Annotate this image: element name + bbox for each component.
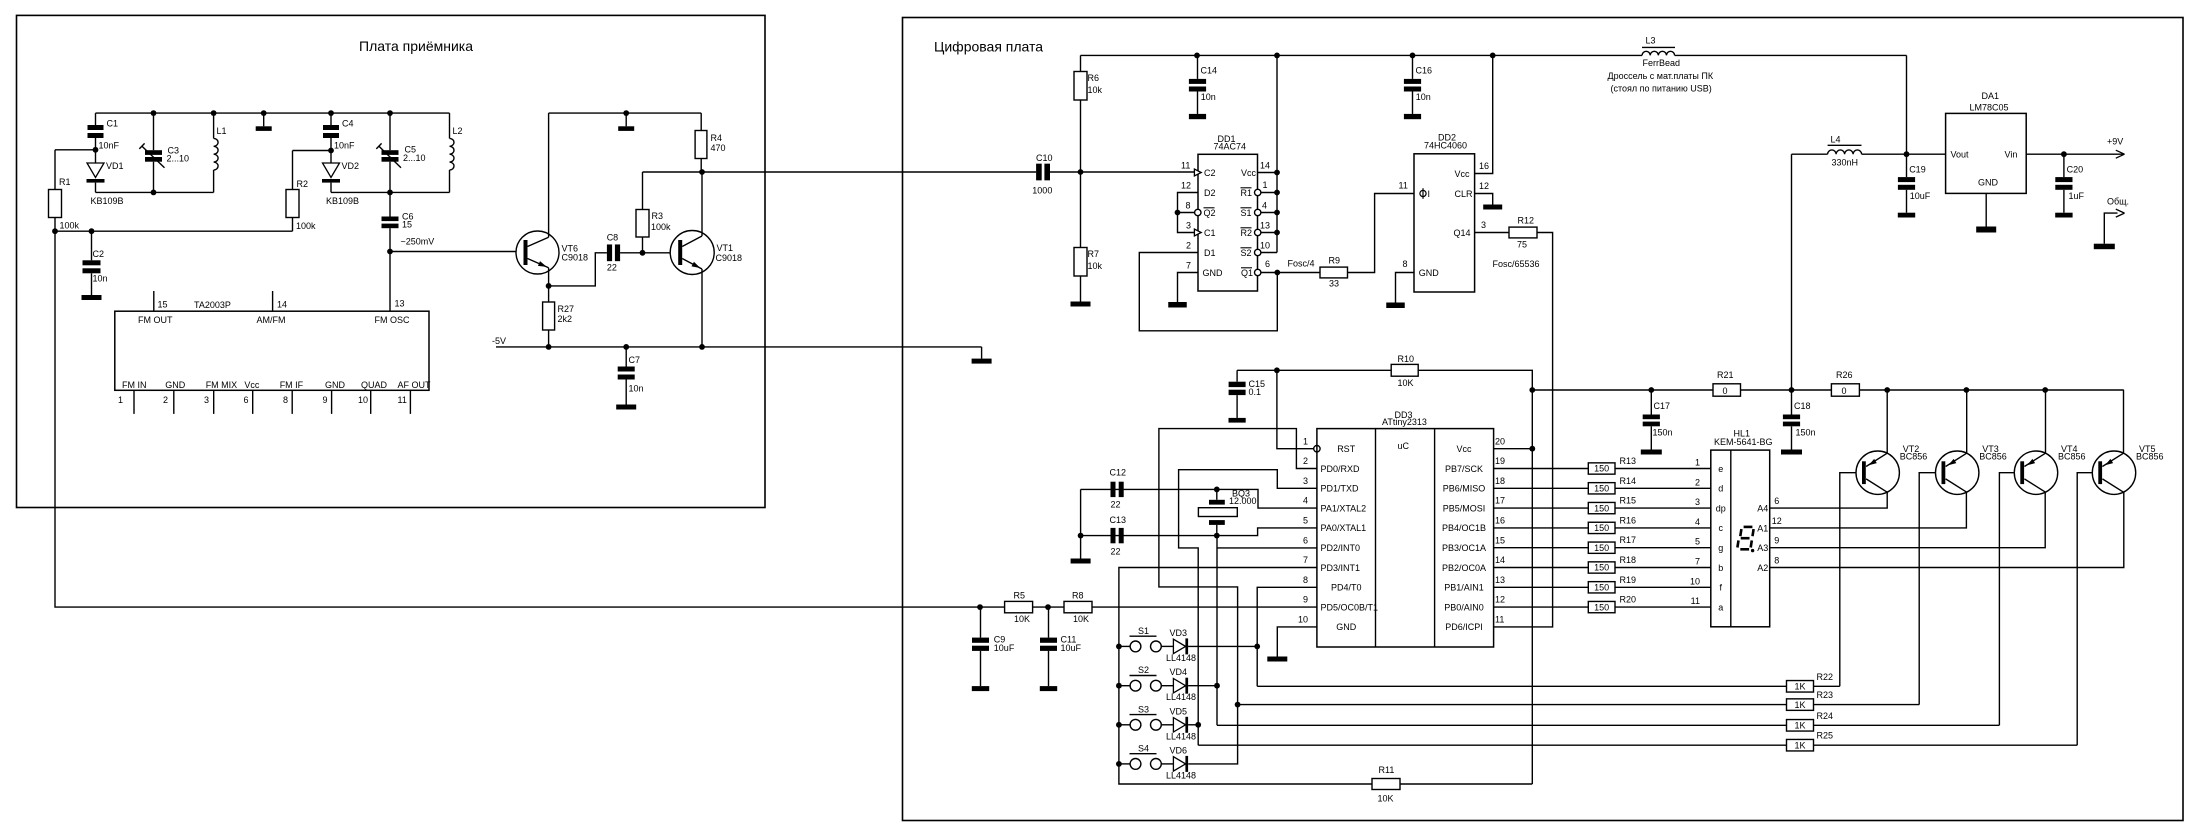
svg-text:150: 150 bbox=[1594, 484, 1609, 494]
svg-text:150: 150 bbox=[1594, 602, 1609, 612]
svg-text:2...10: 2...10 bbox=[167, 154, 190, 164]
ground DD2 bbox=[1386, 303, 1405, 309]
svg-text:C4: C4 bbox=[342, 119, 354, 129]
svg-text:S1: S1 bbox=[1241, 208, 1252, 218]
svg-text:TA2003P: TA2003P bbox=[194, 300, 231, 310]
svg-text:0: 0 bbox=[1723, 386, 1728, 396]
resistor R23 bbox=[1787, 699, 1814, 711]
transistor VT6 bbox=[516, 231, 559, 274]
resistor R25 bbox=[1787, 739, 1814, 751]
capacitor C18 bbox=[1791, 390, 1793, 415]
wire DD3 gnd bbox=[1277, 627, 1317, 657]
svg-text:74AC74: 74AC74 bbox=[1214, 141, 1247, 151]
svg-text:470: 470 bbox=[711, 143, 726, 153]
wire C1/VD1 to R1 bbox=[55, 149, 96, 151]
svg-text:Vcc: Vcc bbox=[1456, 444, 1472, 454]
svg-text:5: 5 bbox=[1695, 537, 1700, 547]
svg-text:100k: 100k bbox=[296, 221, 316, 231]
transistor VT4 bbox=[2014, 451, 2057, 494]
svg-text:FM IF: FM IF bbox=[280, 380, 304, 390]
svg-text:16: 16 bbox=[1495, 516, 1505, 526]
node rail gnd tap bbox=[261, 110, 267, 116]
svg-text:A4: A4 bbox=[1757, 504, 1768, 514]
node C14 top bbox=[1194, 53, 1200, 59]
svg-text:PD4/T0: PD4/T0 bbox=[1331, 583, 1362, 593]
svg-text:10: 10 bbox=[1260, 241, 1270, 251]
svg-text:13: 13 bbox=[1495, 575, 1505, 585]
svg-text:11: 11 bbox=[1691, 596, 1700, 606]
resistor R16 bbox=[1588, 522, 1615, 533]
node VT3 emitter riser bbox=[1964, 387, 1970, 393]
svg-text:Дроссель с мат.платы ПК: Дроссель с мат.платы ПК bbox=[1608, 71, 1714, 81]
svg-text:Q1: Q1 bbox=[1241, 268, 1253, 278]
wire VT2 emitter bbox=[1886, 390, 1888, 453]
node commons S2 bbox=[1116, 683, 1122, 689]
svg-text:R23: R23 bbox=[1817, 690, 1834, 700]
wire RST riser bbox=[1277, 370, 1314, 448]
svg-text:S3: S3 bbox=[1138, 704, 1149, 714]
svg-text:R20: R20 bbox=[1620, 595, 1637, 605]
svg-text:PD1/TXD: PD1/TXD bbox=[1321, 484, 1360, 494]
wire PB row 13 bbox=[1494, 468, 1589, 470]
node DD1 S1 bbox=[1274, 210, 1280, 216]
pin 6 stub bbox=[252, 390, 254, 414]
node RST riser top bbox=[1274, 367, 1280, 373]
node tank2 C5 top bbox=[387, 110, 393, 116]
svg-text:R9: R9 bbox=[1329, 256, 1341, 266]
ground C16 bbox=[1404, 114, 1421, 119]
digital board frame bbox=[903, 18, 2184, 821]
wire DD2 gnd bbox=[1396, 273, 1415, 303]
DD3 RST bubble bbox=[1314, 446, 1320, 452]
wire PB row 17 bbox=[1494, 547, 1589, 549]
svg-text:10n: 10n bbox=[1201, 92, 1216, 102]
wire A4 to VT2 bbox=[1770, 492, 1888, 508]
IC DD2 box bbox=[1414, 154, 1475, 292]
node C20 top bbox=[2061, 151, 2067, 157]
svg-text:dp: dp bbox=[1716, 503, 1726, 513]
svg-text:+9V: +9V bbox=[2107, 137, 2123, 147]
ground C9 bbox=[972, 686, 989, 691]
svg-text:Vcc: Vcc bbox=[1455, 169, 1471, 179]
wire DD2 vcc bbox=[1475, 55, 1493, 173]
svg-text:4: 4 bbox=[1262, 201, 1267, 211]
node C7 top bbox=[623, 344, 629, 350]
svg-text:33: 33 bbox=[1329, 279, 1339, 289]
DD1 Q2 bubble bbox=[1195, 209, 1201, 215]
node R4-VT1 collector bbox=[699, 169, 705, 175]
svg-text:R14: R14 bbox=[1620, 476, 1637, 486]
wire VT6 collector bbox=[548, 113, 550, 237]
capacitor C15 bbox=[1236, 370, 1238, 381]
svg-text:PD5/OC0B/T1: PD5/OC0B/T1 bbox=[1321, 602, 1379, 612]
svg-text:C9018: C9018 bbox=[716, 253, 743, 263]
ground C17 bbox=[1641, 450, 1662, 455]
svg-text:RST: RST bbox=[1337, 444, 1356, 454]
svg-text:C18: C18 bbox=[1794, 401, 1811, 411]
wire -5V rail bbox=[496, 346, 982, 348]
svg-text:12: 12 bbox=[1495, 595, 1505, 605]
svg-text:8: 8 bbox=[1774, 556, 1779, 566]
diode VD3 bbox=[1161, 645, 1173, 647]
svg-text:R12: R12 bbox=[1518, 216, 1535, 226]
svg-text:14: 14 bbox=[1260, 161, 1270, 171]
wire R11 to vcc line bbox=[1400, 783, 1532, 785]
resistor R24 bbox=[1787, 720, 1814, 732]
svg-text:R18: R18 bbox=[1620, 555, 1637, 565]
pin 8 stub bbox=[291, 390, 293, 414]
svg-text:10n: 10n bbox=[93, 274, 108, 284]
inductor L3 bbox=[1642, 51, 1674, 55]
resistor R17 bbox=[1588, 542, 1615, 553]
pin 15 stub bbox=[153, 291, 155, 311]
svg-text:GND: GND bbox=[1203, 268, 1224, 278]
svg-text:R4: R4 bbox=[711, 133, 723, 143]
svg-text:11: 11 bbox=[1495, 615, 1504, 625]
wire receiver to R5 long bbox=[55, 231, 980, 607]
svg-text:LM78C05: LM78C05 bbox=[1970, 103, 2009, 113]
wire VT5 base riser bbox=[2077, 473, 2099, 746]
pin 11 stub bbox=[409, 390, 411, 414]
svg-text:10uF: 10uF bbox=[1061, 643, 1082, 653]
capacitor C19 bbox=[1906, 154, 1908, 177]
+9V arrow bbox=[2116, 150, 2125, 154]
svg-text:KB109B: KB109B bbox=[326, 196, 359, 206]
node R1 bottom bbox=[52, 228, 58, 234]
resistor R6 bbox=[1080, 55, 1082, 71]
svg-text:7: 7 bbox=[1303, 555, 1308, 565]
svg-text:GND: GND bbox=[1336, 622, 1357, 632]
pin 2 stub bbox=[173, 390, 175, 414]
svg-text:R5: R5 bbox=[1014, 591, 1026, 601]
wire R5-R8 bbox=[1033, 606, 1064, 608]
svg-text:R25: R25 bbox=[1817, 731, 1834, 741]
svg-text:~250mV: ~250mV bbox=[401, 237, 435, 247]
svg-text:VD4: VD4 bbox=[1170, 667, 1188, 677]
pin 1 stub bbox=[133, 390, 135, 414]
node PD4 net S1 bbox=[1254, 644, 1260, 650]
wire R10 right to rail bbox=[1418, 370, 1532, 784]
svg-text:6: 6 bbox=[1303, 535, 1308, 545]
svg-text:L2: L2 bbox=[453, 126, 463, 136]
svg-text:R8: R8 bbox=[1072, 591, 1084, 601]
svg-text:9: 9 bbox=[1774, 536, 1779, 546]
svg-text:8: 8 bbox=[1303, 575, 1308, 585]
svg-text:Q14: Q14 bbox=[1454, 228, 1471, 238]
wire Fosc line bbox=[643, 171, 1037, 173]
svg-text:10n: 10n bbox=[629, 384, 644, 394]
svg-text:10K: 10K bbox=[1378, 794, 1394, 804]
svg-text:150: 150 bbox=[1594, 523, 1609, 533]
svg-text:C7: C7 bbox=[629, 355, 641, 365]
svg-text:2: 2 bbox=[1186, 241, 1191, 251]
svg-text:C16: C16 bbox=[1416, 65, 1433, 75]
svg-text:2: 2 bbox=[163, 395, 168, 405]
svg-text:I: I bbox=[1428, 189, 1431, 199]
svg-text:8: 8 bbox=[1403, 259, 1408, 269]
svg-text:BC856: BC856 bbox=[1979, 452, 2007, 462]
resistor R20 bbox=[1588, 601, 1615, 612]
svg-text:Fosc/4: Fosc/4 bbox=[1288, 259, 1315, 269]
resistor R10 bbox=[1391, 364, 1418, 376]
svg-text:R3: R3 bbox=[652, 211, 664, 221]
pin 9 stub bbox=[331, 390, 333, 414]
wire PB row 16 bbox=[1494, 527, 1589, 529]
node crystal top bbox=[1214, 487, 1220, 493]
resistor R7 bbox=[1080, 172, 1082, 248]
svg-text:9: 9 bbox=[1303, 595, 1308, 605]
svg-text:150: 150 bbox=[1594, 563, 1609, 573]
svg-text:Vcc: Vcc bbox=[1241, 168, 1257, 178]
svg-text:AF OUT: AF OUT bbox=[398, 380, 432, 390]
resistor R11 bbox=[1372, 779, 1400, 790]
wire DD1 vcc riser bbox=[1276, 55, 1278, 252]
switch S3 bbox=[1119, 724, 1130, 726]
ground C18 bbox=[1781, 450, 1802, 455]
svg-text:15: 15 bbox=[158, 300, 168, 310]
svg-text:14: 14 bbox=[277, 300, 287, 310]
svg-text:R26: R26 bbox=[1836, 370, 1853, 380]
node DD1 vcc pin14 bbox=[1274, 170, 1280, 176]
wire PB row 18 bbox=[1494, 567, 1589, 569]
svg-text:10uF: 10uF bbox=[1910, 191, 1931, 201]
switch S4 bbox=[1119, 763, 1130, 765]
wire DA1 gnd bbox=[1985, 193, 1987, 226]
ground amp top bbox=[625, 113, 627, 126]
wire R10 left bbox=[1237, 369, 1391, 371]
svg-text:1K: 1K bbox=[1794, 682, 1805, 692]
svg-text:100k: 100k bbox=[60, 221, 80, 231]
svg-text:22: 22 bbox=[1111, 500, 1121, 510]
wire A1 to VT3 bbox=[1770, 492, 1967, 528]
svg-text:FerrBead: FerrBead bbox=[1643, 58, 1681, 68]
wire emitter to C8 bbox=[549, 253, 607, 286]
svg-text:C12: C12 bbox=[1110, 468, 1127, 478]
node VT2 emitter riser bbox=[1884, 387, 1890, 393]
capacitor C4 bbox=[330, 113, 332, 125]
svg-text:Плата приёмника: Плата приёмника bbox=[359, 38, 473, 54]
svg-text:5: 5 bbox=[1303, 516, 1308, 526]
resistor R18 bbox=[1588, 562, 1615, 573]
svg-text:22: 22 bbox=[607, 263, 617, 273]
pin 3 stub bbox=[213, 390, 215, 414]
IC DD3 box bbox=[1317, 429, 1494, 647]
svg-text:a: a bbox=[1718, 602, 1723, 612]
resistor R26 bbox=[1831, 384, 1859, 396]
ground C12 C13 bbox=[1071, 559, 1091, 564]
svg-text:Vcc: Vcc bbox=[244, 380, 260, 390]
ground C20 bbox=[2055, 213, 2072, 218]
capacitor C17 bbox=[1650, 390, 1652, 415]
svg-text:11: 11 bbox=[1181, 161, 1190, 171]
svg-text:Vin: Vin bbox=[2005, 150, 2018, 160]
svg-text:GND: GND bbox=[325, 380, 346, 390]
ground C2 bbox=[82, 295, 102, 300]
svg-text:1000: 1000 bbox=[1032, 185, 1052, 195]
wire VT1 collector bbox=[701, 172, 703, 236]
resistor R21 bbox=[1713, 384, 1741, 396]
resistor R5 bbox=[1005, 601, 1033, 612]
inductor L2 bbox=[449, 113, 451, 138]
ground -5V rail end bbox=[981, 347, 983, 359]
svg-text:12: 12 bbox=[1479, 181, 1489, 191]
svg-text:3: 3 bbox=[1186, 221, 1191, 231]
diode VD1 bbox=[87, 163, 104, 178]
svg-text:18: 18 bbox=[1495, 476, 1505, 486]
diode VD4 bbox=[1161, 685, 1173, 687]
svg-text:2...10: 2...10 bbox=[403, 153, 426, 163]
svg-text:12.000: 12.000 bbox=[1229, 496, 1257, 506]
capacitor C16 bbox=[1412, 55, 1414, 79]
resistor R2 bbox=[292, 151, 294, 190]
ground C19 bbox=[1898, 213, 1915, 218]
svg-text:10K: 10K bbox=[1014, 614, 1030, 624]
node FM OSC tap bbox=[387, 249, 393, 255]
svg-text:QUAD: QUAD bbox=[361, 380, 388, 390]
wire R9 to DD2 bbox=[1348, 194, 1415, 273]
svg-text:3: 3 bbox=[1481, 220, 1486, 230]
svg-text:CLR: CLR bbox=[1455, 189, 1474, 199]
svg-text:1uF: 1uF bbox=[2069, 191, 2085, 201]
svg-text:PA0/XTAL1: PA0/XTAL1 bbox=[1321, 523, 1367, 533]
capacitor C10 bbox=[1036, 164, 1042, 181]
DD1 bubbles right bbox=[1255, 189, 1261, 195]
svg-text:150: 150 bbox=[1594, 464, 1609, 474]
svg-text:GND: GND bbox=[165, 380, 186, 390]
wire PD2 pin stub bbox=[1217, 547, 1317, 549]
svg-text:R27: R27 bbox=[558, 304, 575, 314]
ground top rail bbox=[263, 113, 265, 126]
svg-text:(стоял по питанию USB): (стоял по питанию USB) bbox=[1611, 84, 1712, 94]
svg-text:R2: R2 bbox=[297, 179, 309, 189]
wire PB row 19 bbox=[1494, 586, 1589, 588]
wire PD1 net to S3 bbox=[1179, 470, 1317, 746]
capacitor C8 bbox=[607, 244, 612, 261]
wire VT4 emitter bbox=[2045, 390, 2047, 453]
svg-text:PB4/OC1B: PB4/OC1B bbox=[1442, 523, 1486, 533]
svg-text:1: 1 bbox=[1263, 180, 1268, 190]
transistor VT5 bbox=[2092, 451, 2135, 494]
node C13 common bbox=[1078, 533, 1084, 539]
node C17 top bbox=[1648, 387, 1654, 393]
wire PD0 net to S4 bbox=[1159, 429, 1317, 764]
svg-text:PD6/ICPI: PD6/ICPI bbox=[1445, 622, 1483, 632]
svg-text:150: 150 bbox=[1594, 543, 1609, 553]
DD1 clock C1 triangle bbox=[1194, 229, 1201, 236]
svg-text:6: 6 bbox=[1774, 496, 1779, 506]
diode VD2 bbox=[323, 163, 340, 178]
svg-text:3: 3 bbox=[1303, 476, 1308, 486]
node Q1 out bbox=[1274, 270, 1280, 276]
svg-text:C14: C14 bbox=[1201, 65, 1218, 75]
resistor R14 bbox=[1588, 483, 1615, 494]
transistor VT2 bbox=[1856, 451, 1899, 494]
wire PD3 commons bbox=[1119, 568, 1372, 785]
node DD1 R2 bbox=[1274, 230, 1280, 236]
node commons S1 bbox=[1116, 644, 1122, 650]
svg-text:R11: R11 bbox=[1379, 765, 1395, 775]
svg-text:BC856: BC856 bbox=[2136, 452, 2164, 462]
svg-text:e: e bbox=[1718, 464, 1723, 474]
node C16 top bbox=[1410, 53, 1416, 59]
svg-text:Цифровая плата: Цифровая плата bbox=[934, 39, 1043, 55]
wire DD2 clr gnd bbox=[1475, 194, 1493, 205]
svg-text:13: 13 bbox=[395, 299, 405, 309]
svg-text:9: 9 bbox=[323, 395, 328, 405]
svg-text:R2: R2 bbox=[1241, 228, 1253, 238]
wire C4/VD2 to R2 bbox=[293, 150, 332, 152]
svg-text:S1: S1 bbox=[1138, 626, 1149, 636]
svg-text:L3: L3 bbox=[1646, 36, 1656, 46]
wire PD4 net to S1 bbox=[1257, 587, 1317, 686]
switch S1 bbox=[1119, 645, 1130, 647]
svg-text:C1: C1 bbox=[1204, 228, 1216, 238]
svg-text:15: 15 bbox=[402, 220, 412, 230]
svg-text:LL4148: LL4148 bbox=[1166, 731, 1196, 741]
DD2 clock input symbol bbox=[1422, 188, 1424, 199]
svg-text:ATtiny2313: ATtiny2313 bbox=[1382, 417, 1427, 427]
resistor R4 bbox=[700, 113, 702, 130]
svg-text:12: 12 bbox=[1772, 516, 1782, 526]
svg-text:KEM-5641-BG: KEM-5641-BG bbox=[1714, 437, 1773, 447]
svg-text:C19: C19 bbox=[1909, 165, 1926, 175]
ground R7 bbox=[1071, 302, 1091, 307]
svg-text:R6: R6 bbox=[1088, 73, 1100, 83]
svg-text:150: 150 bbox=[1594, 503, 1609, 513]
receiver board frame bbox=[17, 15, 766, 507]
svg-text:R19: R19 bbox=[1620, 575, 1637, 585]
svg-text:C10: C10 bbox=[1036, 153, 1053, 163]
svg-text:GND: GND bbox=[1978, 178, 1999, 188]
svg-text:C9018: C9018 bbox=[562, 253, 589, 263]
svg-text:10k: 10k bbox=[1088, 85, 1103, 95]
svg-text:PB7/SCK: PB7/SCK bbox=[1445, 464, 1483, 474]
svg-text:11: 11 bbox=[1399, 181, 1408, 191]
IC DD1 box bbox=[1198, 154, 1258, 291]
wire L4 riser bbox=[1791, 154, 1793, 390]
svg-text:D1: D1 bbox=[1204, 248, 1216, 258]
wire PB row 15 bbox=[1494, 507, 1589, 509]
svg-text:4: 4 bbox=[1303, 496, 1308, 506]
node VT1 emitter rail bbox=[699, 344, 705, 350]
wire key row R25 bbox=[1198, 744, 1786, 746]
ground C11 bbox=[1040, 686, 1057, 691]
node PD0 net R23 row bbox=[1235, 702, 1241, 708]
svg-text:10nF: 10nF bbox=[334, 141, 355, 151]
svg-text:d: d bbox=[1718, 484, 1723, 494]
svg-text:8: 8 bbox=[1186, 201, 1191, 211]
svg-text:VD5: VD5 bbox=[1170, 706, 1188, 716]
wire osc to VT6 base bbox=[390, 251, 523, 253]
crystal BQ3 bbox=[1216, 489, 1218, 499]
svg-text:R13: R13 bbox=[1620, 456, 1637, 466]
svg-text:330nH: 330nH bbox=[1832, 158, 1859, 168]
svg-text:LL4148: LL4148 bbox=[1166, 692, 1196, 702]
svg-text:1: 1 bbox=[118, 395, 123, 405]
node C18 top bbox=[1789, 387, 1795, 393]
svg-text:A3: A3 bbox=[1757, 543, 1768, 553]
svg-text:16: 16 bbox=[1479, 161, 1489, 171]
ground C14 bbox=[1189, 114, 1206, 119]
svg-text:R15: R15 bbox=[1620, 496, 1637, 506]
svg-text:14: 14 bbox=[1495, 555, 1505, 565]
node C11 tap bbox=[1045, 604, 1051, 610]
node lineA rail bbox=[1529, 387, 1535, 393]
wire D2-Q2-C1 tie bbox=[1178, 193, 1199, 233]
wire key row R22 bbox=[1257, 685, 1786, 687]
svg-text:BC856: BC856 bbox=[2058, 452, 2086, 462]
svg-text:R1: R1 bbox=[59, 177, 71, 187]
